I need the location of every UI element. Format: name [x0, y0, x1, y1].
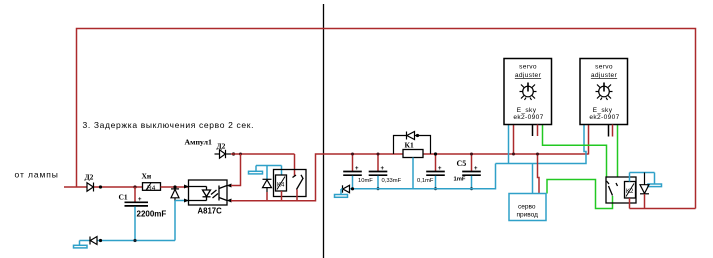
relay K4 [274, 170, 307, 197]
wire coil bottom to rail [629, 198, 631, 209]
wire servo2 red pin [588, 125, 590, 155]
capacitor C2 10mF [343, 153, 373, 189]
svg-text:привод: привод [517, 212, 539, 219]
svg-text:+: + [138, 197, 142, 203]
node lamp-D2 [94, 186, 143, 188]
relay K2 [606, 177, 636, 203]
wire from lamp [64, 186, 87, 188]
diode D2 (left) [87, 183, 94, 192]
ground chassis middle [335, 189, 348, 197]
diode mid-bottom (points left) [343, 185, 350, 192]
wire red to servo drive box [538, 154, 540, 194]
svg-text:A817C: A817C [198, 207, 223, 216]
svg-text:ek2-0907: ek2-0907 [589, 114, 619, 121]
wire diode to bottom rail [644, 194, 646, 209]
svg-text:2200mF: 2200mF [137, 210, 167, 219]
diode flyback K4 (points up) [263, 179, 272, 192]
svg-text:1mF: 1mF [454, 177, 466, 183]
svg-text:К1: К1 [405, 141, 414, 150]
capacitor C1 [134, 187, 136, 202]
wire cyan bottom bus [80, 240, 91, 242]
svg-text:K2: K2 [626, 189, 634, 195]
svg-text:от лампы: от лампы [15, 170, 59, 180]
wire bottom rail [630, 208, 696, 210]
capacitor C3 0,33mF [369, 153, 402, 191]
svg-text:adjuster: adjuster [591, 72, 618, 79]
resistor R4 [143, 183, 161, 191]
pin stubs unused U2 [532, 125, 534, 137]
svg-text:серво: серво [518, 204, 536, 211]
svg-text:0,33mF: 0,33mF [382, 178, 402, 184]
capacitor C5 [454, 153, 481, 191]
wire into relay switch [294, 154, 296, 177]
svg-text:ek2-0907: ek2-0907 [513, 114, 543, 121]
wire opto pin3 to bus [231, 154, 589, 201]
diode D2 (second) [215, 150, 232, 158]
svg-text:servo: servo [595, 64, 613, 71]
svg-text:+: + [438, 166, 442, 172]
svg-text:E_sky: E_sky [593, 107, 613, 114]
svg-text:E_sky: E_sky [517, 107, 537, 114]
ground chassis right [630, 173, 662, 187]
ground chassis K4 [249, 166, 282, 180]
dial U3 [596, 83, 613, 101]
svg-text:servo: servo [519, 64, 537, 71]
svg-text:adjuster: adjuster [515, 72, 542, 79]
diode VD protection (points up) [171, 189, 179, 201]
wire cyan middle bus [350, 164, 496, 189]
node C1 bottom [133, 239, 136, 242]
svg-text:+: + [474, 166, 478, 172]
servo adjuster U2 box [504, 59, 552, 125]
svg-text:Хн: Хн [142, 172, 152, 181]
wire diode to cyan node [175, 200, 189, 202]
wire branch to opto pin4 [239, 153, 242, 156]
node R4-opto junction [173, 185, 176, 188]
svg-text:K4: K4 [277, 183, 285, 189]
diode flyback K2 (points down) [640, 173, 649, 194]
capacitor C4 0,1mF [417, 152, 445, 190]
wire coil bottom [281, 191, 283, 202]
node after D2-2 [232, 152, 235, 155]
node A (junction after D2) [99, 185, 102, 188]
svg-text:C5: C5 [457, 159, 467, 168]
relay K1 coil [403, 150, 423, 158]
svg-text:+: + [355, 166, 359, 172]
svg-text:C1: C1 [119, 193, 128, 202]
node bottom junction [99, 239, 102, 242]
wire green servo2 signal [617, 125, 619, 178]
svg-text:10mF: 10mF [358, 178, 373, 184]
op-amp U1 optocoupler A817C [189, 180, 228, 205]
wire main line left part [231, 153, 295, 155]
servo drive box [509, 194, 546, 221]
divider line [323, 4, 325, 258]
pin marks [184, 184, 232, 203]
wire servo1 cyan pin [508, 125, 510, 164]
svg-text:3. Задержка выключения серво 2: 3. Задержка выключения серво 2 сек. [83, 120, 255, 130]
svg-text:Ампул1: Ампул1 [185, 138, 213, 147]
svg-text:Д2: Д2 [217, 142, 226, 151]
wire servo1 red pin [513, 125, 515, 155]
svg-text:0,1mF: 0,1mF [417, 178, 434, 184]
wire K1 coil to bus [412, 158, 414, 189]
wire R4 to opto [161, 186, 189, 188]
servo adjuster U3 box [580, 59, 628, 125]
wire green servo1 signal [543, 125, 607, 178]
wire cyan to servo drive box [532, 164, 534, 194]
wire cyan line to servos [496, 125, 587, 164]
ground chassis left [74, 241, 88, 248]
wire green servo drive signal [547, 180, 613, 209]
svg-text:Д2: Д2 [85, 173, 94, 182]
svg-text:R4: R4 [147, 185, 156, 192]
wire relay switch output [296, 190, 298, 202]
pin stubs unused U3 [608, 125, 610, 137]
wire top rail [77, 29, 696, 209]
node C1 junction [133, 185, 136, 188]
diode flyback K1 (points left) [394, 132, 431, 155]
diode bottom-left (points left) [90, 237, 97, 245]
dial U2 [520, 83, 537, 101]
svg-text:+: + [381, 166, 385, 172]
